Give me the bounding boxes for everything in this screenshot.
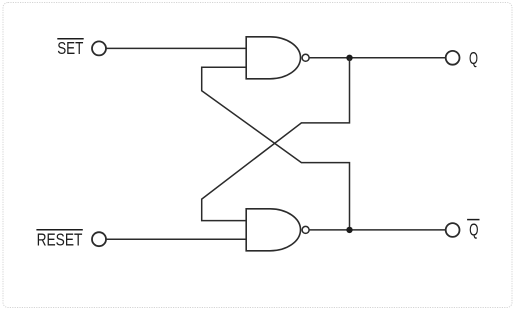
wire RESET to U2 pin 2 bbox=[106, 238, 246, 240]
wire feedback Q to U2 pin 1 bbox=[202, 58, 350, 221]
node SET label bbox=[57, 38, 83, 58]
wire U1 output to Q bbox=[309, 57, 445, 59]
svg-text:Q: Q bbox=[469, 48, 478, 68]
node Qbar junction bbox=[346, 227, 352, 233]
node RESET label bbox=[36, 229, 82, 249]
U2 output bubble bbox=[302, 226, 309, 233]
nand gate U2 bbox=[246, 209, 300, 251]
svg-text:SET: SET bbox=[57, 38, 83, 58]
svg-text:Q: Q bbox=[469, 219, 478, 239]
wire U2 output to Qbar bbox=[309, 229, 445, 231]
input terminal RESET bbox=[92, 232, 106, 246]
input terminal SET bbox=[92, 41, 106, 55]
svg-text:RESET: RESET bbox=[37, 229, 83, 249]
output terminal Qbar bbox=[446, 223, 460, 237]
nand gate U1 bbox=[246, 37, 300, 79]
U1 output bubble bbox=[302, 54, 309, 61]
node Q junction bbox=[346, 55, 352, 61]
wire feedback Qbar to U1 pin 2 bbox=[202, 67, 350, 230]
wire SET to U1 pin 1 bbox=[106, 47, 246, 49]
output terminal Q bbox=[446, 51, 460, 65]
node Qbar label bbox=[467, 219, 479, 239]
